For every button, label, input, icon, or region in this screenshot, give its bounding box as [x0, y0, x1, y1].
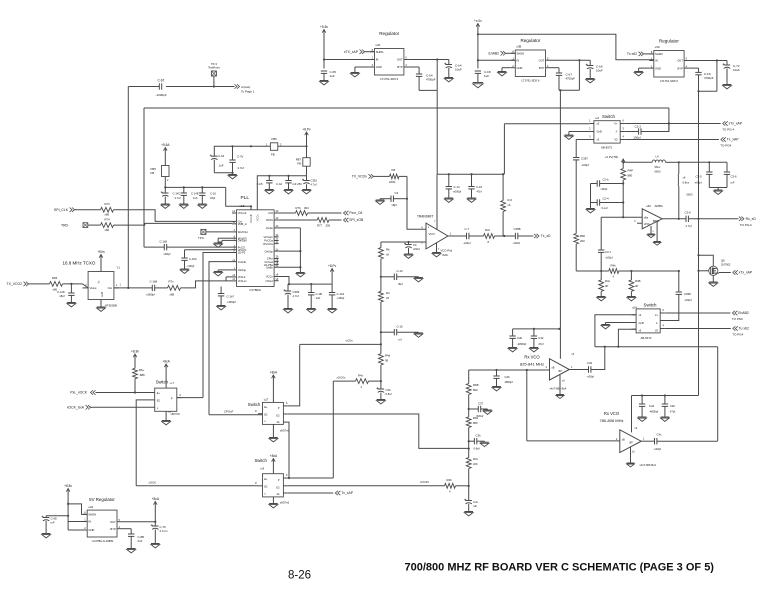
- wire +V top rail to reg3: [478, 34, 654, 60]
- svg-text:-x00pf: -x00pf: [513, 241, 521, 245]
- svg-text:C2-b: C2-b: [603, 178, 610, 182]
- connector TX_VCO2 input: [7, 282, 31, 286]
- svg-text:Rb: Rb: [386, 248, 390, 252]
- svg-text:x6: x6: [683, 176, 686, 180]
- power +8.Pv at FB6 node: [302, 128, 311, 158]
- svg-text:0-xuf: 0-xuf: [602, 206, 608, 210]
- capacitor C-b2 1uF pll rail: [276, 176, 302, 194]
- transistor Q6 2N7002: [709, 259, 731, 276]
- svg-text:R4B: R4B: [635, 279, 641, 283]
- capacitor C4e 47pF vco2: [661, 396, 676, 422]
- capacitor C-b4 loop near FB6: [210, 146, 234, 173]
- svg-text:R73: R73: [105, 202, 111, 206]
- svg-text:R7x: R7x: [169, 280, 175, 284]
- connector TX_xD output: [534, 234, 551, 238]
- svg-text:1uF: 1uF: [330, 74, 335, 78]
- svg-text:C-1b7: C-1b7: [227, 294, 235, 298]
- capacitor C3-6 1uF amp rail: [724, 162, 737, 187]
- svg-text:L4: L4: [656, 155, 660, 159]
- capacitor C-b4 10uF tantalum reg1 out: [444, 60, 462, 82]
- testpoint TP-b at PLL WuXOut: [198, 229, 232, 240]
- wire PLL LD-P2 down: [203, 253, 232, 398]
- svg-text:nPvCOa: nPvCOa: [263, 242, 274, 246]
- wire ladder x380 top: [380, 242, 382, 248]
- wire VCO1 supply caps rail: [513, 328, 561, 330]
- svg-text:R6B: R6B: [473, 383, 479, 387]
- svg-text:C-8B: C-8B: [138, 535, 145, 539]
- connector xTX_xAP to PG-4: [722, 121, 743, 131]
- svg-text:+8xA: +8xA: [270, 371, 278, 375]
- svg-text:GnB: GnB: [597, 130, 602, 134]
- svg-text:BYP: BYP: [678, 66, 684, 70]
- svg-text:38: 38: [385, 359, 388, 363]
- svg-text:R62: R62: [473, 416, 479, 420]
- svg-text:C-b2: C-b2: [276, 182, 282, 186]
- wire 5Vreg input node: [67, 496, 87, 531]
- svg-text:C4b: C4b: [670, 404, 676, 408]
- svg-text:Tx_xD: Tx_xD: [541, 234, 551, 238]
- svg-text:+5.6A: +5.6A: [161, 143, 170, 147]
- svg-text:ruF: ruF: [731, 181, 735, 185]
- capacitor C-1b8 1000pF series: [146, 280, 158, 297]
- svg-text:FB: FB: [151, 171, 155, 175]
- svg-text:xTAL2: xTAL2: [265, 279, 273, 283]
- svg-text:xOC43: xOC43: [420, 480, 429, 484]
- connector Tx_x62 input reg3: [627, 52, 654, 56]
- svg-text:220: 220: [473, 462, 478, 466]
- svg-text:1A: 1A: [276, 492, 279, 496]
- svg-text:IN: IN: [88, 520, 91, 524]
- wire amp output: [662, 218, 686, 220]
- resistor R4B 47 to gnd: [627, 271, 640, 301]
- ground regulator1 GND pin: [351, 67, 370, 77]
- wire regulator1 output: [408, 58, 448, 60]
- power +8.8v pll lock pullup: [131, 350, 139, 362]
- connector NTX_SHDN input: [344, 50, 375, 54]
- svg-text:xOCK_SxA: xOCK_SxA: [67, 406, 85, 410]
- svg-text:vCOx: vCOx: [346, 339, 354, 343]
- svg-text:u30: u30: [376, 43, 381, 47]
- op-amp Rx VCO1 825-841 MHz: [520, 352, 575, 391]
- connector PLL_xOCK input: [70, 390, 95, 394]
- svg-text:Regulator: Regulator: [659, 39, 679, 44]
- svg-text:C2-4: C2-4: [603, 197, 610, 201]
- svg-text:BYP: BYP: [110, 527, 116, 531]
- wire VCO1 out: [569, 369, 588, 371]
- power +8xA swL: [162, 360, 170, 389]
- svg-text:-88K: -88K: [139, 373, 145, 377]
- svg-text:+8xA: +8xA: [162, 360, 170, 364]
- svg-text:ruf: ruf: [399, 337, 402, 341]
- wire PLL xtal2 pin stub: [226, 277, 232, 281]
- svg-text:TX_VCOx: TX_VCOx: [352, 175, 368, 179]
- ground PLL OeSup pin: [214, 270, 232, 276]
- svg-text:OUT: OUT: [397, 58, 403, 62]
- svg-text:u1B: u1B: [240, 204, 245, 208]
- svg-text:Cb: Cb: [413, 243, 417, 247]
- svg-text:GND: GND: [655, 66, 661, 70]
- capacitor C-b6 10uF tantalum reg2 out: [586, 60, 603, 83]
- wire PLL_xOCK row: [96, 392, 155, 394]
- svg-text:-4800pf: -4800pf: [649, 410, 658, 414]
- svg-text:C-13: C-13: [397, 269, 404, 273]
- switch U17 ADG749 center: [248, 397, 290, 432]
- svg-text:IN: IN: [517, 58, 520, 62]
- svg-text:CPOuF: CPOuF: [224, 410, 234, 414]
- wire PLL VCCx to +8.Pv rail: [279, 277, 289, 285]
- svg-text:E2: E2: [264, 412, 268, 416]
- label 16.8 MHz TCXO: [63, 261, 96, 266]
- svg-text:-1000pF: -1000pF: [156, 93, 167, 97]
- svg-text:C3-6: C3-6: [731, 175, 738, 179]
- svg-text:16.8 MHz TCXO: 16.8 MHz TCXO: [63, 261, 96, 266]
- svg-text:SHDN: SHDN: [88, 513, 96, 517]
- svg-text:Switch: Switch: [602, 114, 615, 119]
- wire VCO2 supply rail: [632, 394, 699, 432]
- svg-text:To Page 1: To Page 1: [241, 90, 255, 94]
- svg-text:PxL_xOCK: PxL_xOCK: [70, 391, 88, 395]
- capacitor C37 820pF branch: [469, 402, 492, 419]
- wire SPI_CLK to PLL: [114, 210, 233, 222]
- svg-text:FB: FB: [297, 161, 301, 165]
- svg-text:+8.Pv: +8.Pv: [328, 264, 337, 268]
- regulator U30 LT1761: [370, 31, 408, 81]
- svg-text:GND: GND: [88, 528, 94, 532]
- capacitor C2-b 100pF feedback: [591, 178, 625, 192]
- svg-text:ruF 25C: ruF 25C: [293, 182, 303, 186]
- svg-text:10uF: 10uF: [455, 68, 462, 72]
- svg-text:O2: O2: [276, 413, 280, 417]
- svg-text:825-841 MHz: 825-841 MHz: [520, 361, 544, 366]
- svg-text:1uF: 1uF: [484, 74, 489, 78]
- ground swL: [162, 411, 171, 425]
- svg-text:-x00pf: -x00pf: [587, 374, 595, 378]
- svg-text:C-1b5: C-1b5: [160, 239, 168, 243]
- svg-text:x8pf: x8pf: [392, 203, 398, 207]
- svg-text:d (test): d (test): [241, 85, 250, 89]
- svg-text:-x00pf: -x00pf: [684, 298, 692, 302]
- svg-text:SPI_CLK: SPI_CLK: [54, 208, 69, 212]
- svg-text:BPOx: BPOx: [653, 220, 660, 223]
- svg-text:P: P: [278, 478, 280, 482]
- wire TCXO out node: [114, 284, 152, 290]
- svg-text:R6: R6: [392, 168, 396, 172]
- svg-text:x8pf: x8pf: [210, 196, 215, 200]
- svg-text:8x8x: 8x8x: [443, 253, 449, 257]
- power +3.0v(TR) amp rail: [605, 155, 626, 162]
- svg-text:-x00pf: -x00pf: [337, 296, 345, 300]
- capacitor C4x 100pF vco2 out: [654, 433, 718, 451]
- resistor R62 860: [466, 416, 478, 449]
- wire PLL supply rail y175: [259, 175, 307, 177]
- svg-text:V+: V+: [655, 313, 659, 317]
- svg-text:OeSup: OeSup: [238, 268, 247, 272]
- svg-text:200: 200: [580, 239, 585, 243]
- svg-text:R3x: R3x: [473, 457, 479, 461]
- ferrite bead FB5: [151, 155, 170, 189]
- wire sw1 pin3 down x575: [576, 140, 589, 156]
- svg-text:x8O7x6: x8O7x6: [280, 500, 290, 504]
- connector Pxxr_C6 output: [344, 211, 363, 215]
- svg-text:1uF: 1uF: [316, 296, 321, 300]
- svg-text:1uF: 1uF: [193, 196, 198, 200]
- svg-text:P: P: [171, 397, 173, 401]
- ground sw2 gnd pin: [601, 323, 631, 329]
- svg-text:CxOuF: CxOuF: [238, 260, 247, 264]
- svg-text:1A: 1A: [276, 420, 279, 424]
- svg-text:FB: FB: [271, 153, 275, 157]
- svg-text:C-14C: C-14C: [173, 192, 181, 196]
- svg-text:Tu x62: Tu x62: [739, 327, 749, 331]
- svg-text:CX7B00x: CX7B00x: [249, 288, 261, 292]
- svg-text:OUT: OUT: [110, 520, 116, 524]
- wire reg3 output: [689, 59, 727, 61]
- capacitor C2-4 0.1uF feedback: [591, 197, 625, 211]
- wire sw1 row3 to connector: [625, 139, 719, 141]
- capacitor C42 47pF vco1: [530, 329, 544, 352]
- ground PLL MUxES OeSum pins: [214, 238, 232, 247]
- svg-text:Rx2: Rx2: [485, 228, 490, 232]
- capacitor C-b5 100pF pll rail: [257, 176, 274, 194]
- svg-text:J-: J-: [615, 130, 617, 134]
- svg-text:R4x: R4x: [358, 374, 364, 378]
- power +5.8v regulator1 input: [320, 25, 328, 37]
- capacitor C-68 1uF 5Vreg: [42, 516, 69, 538]
- svg-text:1uF: 1uF: [219, 164, 224, 168]
- capacitor C-1B 1uF: [307, 284, 322, 313]
- svg-text:C-67: C-67: [158, 79, 165, 83]
- ground reg3 GND pin: [634, 68, 649, 76]
- resistor R4x 47 to gnd: [597, 271, 611, 301]
- capacitor C-1x8 18pF at TCXO in: [57, 284, 76, 307]
- svg-text:VCO: VCO: [429, 232, 436, 236]
- resistor Rx6 x6 pullup: [501, 173, 513, 236]
- capacitor C-79 4.7uF tantalum 5V: [151, 522, 168, 548]
- svg-text:WuXOut: WuXOut: [238, 230, 248, 234]
- svg-text:u-8: u-8: [260, 467, 264, 471]
- wire into PLL xtal pin: [181, 281, 233, 288]
- svg-text:OeBn: OeBn: [266, 265, 273, 269]
- wire TRD to PLL: [114, 223, 233, 225]
- svg-text:TRANSMIT: TRANSMIT: [417, 214, 433, 218]
- svg-text:VCCxB: VCCxB: [249, 214, 253, 223]
- capacitor C3-7 100pF input: [598, 217, 613, 271]
- ground amp rail caps: [709, 188, 727, 195]
- svg-text:rxC78Bx-N-4988b: rxC78Bx-N-4988b: [92, 539, 114, 543]
- svg-text:C3b: C3b: [476, 434, 482, 438]
- svg-text:C-7: C-7: [465, 227, 470, 231]
- capacitor C-x3 18uF branch: [381, 269, 423, 286]
- svg-text:R4b: R4b: [611, 264, 617, 268]
- svg-text:47pf: 47pf: [538, 342, 543, 346]
- svg-text:860: 860: [473, 421, 478, 425]
- svg-text:V2: V2: [655, 329, 659, 333]
- svg-text:LD-P2: LD-P2: [238, 251, 246, 255]
- op-amp PLL chip U1B CX7B00x: [232, 195, 279, 292]
- svg-text:VDB_in: VDB_in: [238, 222, 248, 226]
- svg-text:VCCxd: VCCxd: [238, 211, 247, 215]
- svg-text:xBa: xBa: [644, 217, 649, 220]
- svg-text:C-1b6: C-1b6: [189, 257, 197, 261]
- svg-text:x88: x88: [170, 292, 175, 296]
- capacitor C369 4.7uF tantalum: [284, 284, 300, 313]
- svg-text:860: 860: [473, 388, 478, 392]
- svg-text:u24: u24: [632, 305, 637, 309]
- wire vertical reg1-out to VCO rail: [436, 90, 438, 174]
- wire caps rail y187: [165, 186, 225, 188]
- power +x.0v rail: [474, 19, 482, 35]
- svg-text:VCO Pxd: VCO Pxd: [441, 248, 453, 252]
- capacitor C-x6 47pF VCO rail: [467, 173, 482, 202]
- svg-text:TestPoint: TestPoint: [208, 66, 220, 70]
- wire VCO top rail: [437, 173, 503, 175]
- capacitor C-x6 1uF branch: [381, 325, 423, 342]
- svg-text:C40: C40: [587, 361, 593, 365]
- svg-text:C-16: C-16: [210, 192, 216, 196]
- svg-text:+5Vs: +5Vs: [97, 250, 105, 254]
- svg-text:R74: R74: [105, 218, 111, 222]
- svg-text:700/800 MHZ RF BOARD VER C SCH: 700/800 MHZ RF BOARD VER C SCHEMATIC (PA…: [405, 562, 715, 574]
- wire vertical x128 TCXO column: [127, 87, 129, 288]
- wire Q6 out: [717, 272, 731, 275]
- svg-text:u3C: u3C: [655, 45, 660, 49]
- wire amp supply rail y162: [622, 161, 727, 163]
- svg-text:EnAB2: EnAB2: [738, 311, 749, 315]
- svg-text:BP: BP: [630, 442, 634, 445]
- connector Rx_xD output to PG-b: [739, 217, 756, 227]
- svg-text:4.7uf: 4.7uf: [175, 196, 181, 200]
- svg-text:R4x: R4x: [605, 279, 611, 283]
- wire Q6 drain jog: [697, 254, 713, 266]
- capacitor C3-8 4.7pF series out: [685, 211, 739, 229]
- svg-text:C-7b: C-7b: [237, 155, 244, 159]
- svg-text:Switch: Switch: [255, 458, 268, 463]
- svg-text:4.7uf x: 4.7uf x: [160, 529, 169, 533]
- svg-text:C2-2: C2-2: [635, 125, 642, 129]
- resistor R4d 38 ladder: [379, 344, 391, 381]
- svg-text:x4xT-806 Bx4: x4xT-806 Bx4: [640, 463, 657, 467]
- switch U-7 ADG749 pll lock: [155, 380, 182, 417]
- svg-text:GnB: GnB: [639, 321, 644, 325]
- regulator U3B LT1761: [511, 38, 550, 83]
- svg-text:0603: 0603: [687, 193, 693, 197]
- power +8xA 5Vreg out: [152, 497, 160, 522]
- power +8xA swA: [270, 371, 278, 403]
- svg-text:r8uf: r8uf: [398, 282, 403, 286]
- svg-text:4700pF: 4700pF: [704, 76, 714, 80]
- wire swB pin6 up: [288, 477, 333, 479]
- svg-text:u3B: u3B: [516, 44, 521, 48]
- svg-text:xTALxn: xTALxn: [238, 279, 247, 283]
- svg-text:R4b: R4b: [447, 478, 453, 482]
- wire ladder top corner: [468, 370, 470, 384]
- capacitor C-b9 4700pF BYP loop reg3: [689, 61, 717, 93]
- capacitor C3-5 100pF amp rail: [694, 162, 712, 187]
- svg-text:J-: J-: [656, 321, 658, 325]
- svg-text:47pf: 47pf: [477, 190, 482, 194]
- connector TRD input: [61, 223, 88, 228]
- svg-text:AB-8373: AB-8373: [601, 145, 612, 149]
- svg-text:+5.8v: +5.8v: [320, 25, 328, 29]
- svg-text:C3-7: C3-7: [605, 250, 612, 254]
- ground reg2 GND pin: [498, 68, 511, 76]
- resistor R4P 880 amp bias: [621, 162, 633, 217]
- capacitor C4d 4800pF vco2: [638, 396, 659, 422]
- capacitor C3b 6.8uF tantalum: [376, 381, 391, 404]
- svg-text:200: 200: [326, 224, 331, 228]
- ground under VCO1: [556, 375, 565, 399]
- svg-text:56nx: 56nx: [655, 165, 661, 169]
- svg-text:ruF: ruF: [51, 521, 55, 525]
- svg-text:Tx_xAP: Tx_xAP: [727, 138, 740, 142]
- svg-text:C-1b8: C-1b8: [150, 280, 158, 284]
- wire x333 vertical: [332, 381, 334, 478]
- svg-text:4.7uf: 4.7uf: [293, 294, 299, 298]
- resistor R6 220K: [376, 168, 408, 184]
- svg-text:VCCx: VCCx: [266, 275, 274, 279]
- svg-text:C-b4: C-b4: [218, 154, 225, 158]
- power +8.Pv at PLL vcc caps: [328, 264, 337, 276]
- svg-text:5V Regulator: 5V Regulator: [89, 497, 115, 502]
- wire rail to FB6: [233, 145, 271, 147]
- svg-text:+3 Pv(TR): +3 Pv(TR): [605, 155, 619, 159]
- svg-text:E+: E+: [157, 391, 161, 395]
- inductor L5 6.8nH: [678, 162, 693, 218]
- connector RX test to page 1: [235, 84, 255, 93]
- resistor R6x 100K pullup: [133, 361, 145, 394]
- svg-text:V2: V2: [614, 138, 618, 142]
- wire +8.Pv cap rail: [288, 276, 332, 286]
- wire sw2 row3 out jog: [665, 328, 731, 330]
- op-amp U40 AFB04 lna: [634, 204, 663, 229]
- wire VCO1 input row: [469, 369, 550, 371]
- svg-text:C-16: C-16: [476, 185, 483, 189]
- svg-text:C362: C362: [311, 179, 318, 183]
- svg-text:Switch: Switch: [644, 302, 657, 307]
- wire VCO pin3 row: [381, 241, 426, 243]
- capacitor C-14E 1uF: [191, 187, 207, 208]
- svg-text:Regulator: Regulator: [379, 31, 399, 36]
- svg-text:R65: R65: [52, 276, 58, 280]
- capacitor C-1b5 100pF series PvCO: [144, 239, 232, 256]
- svg-text:-x00pf: -x00pf: [187, 264, 195, 268]
- wire swL pin2 to xOCK net: [136, 400, 155, 486]
- svg-text:SHDN: SHDN: [655, 52, 663, 56]
- capacitor C-8B bypass 5V: [122, 529, 145, 553]
- svg-text:OeSu: OeSu: [266, 226, 273, 230]
- svg-text:4P: 4P: [605, 284, 608, 288]
- svg-text:6.8uf: 6.8uf: [386, 392, 392, 396]
- svg-text:4.7uf: 4.7uf: [311, 183, 317, 187]
- svg-text:4 7pf: 4 7pf: [686, 224, 692, 228]
- svg-text:C-14: C-14: [454, 185, 461, 189]
- svg-text:x8pf: x8pf: [59, 294, 64, 298]
- svg-text:Y1: Y1: [117, 266, 121, 270]
- capacitor C-14A tantalum: [161, 187, 170, 208]
- wire swL out to PLL LD: [177, 397, 203, 399]
- capacitor C-1b4 100pF: [328, 284, 345, 313]
- svg-text:x00uf: x00uf: [413, 247, 420, 251]
- connector SPI_xOB output: [344, 218, 364, 222]
- connector TX_xAP to PG-x: [720, 137, 739, 147]
- svg-text:2N7002: 2N7002: [721, 263, 731, 267]
- svg-text:10uF: 10uF: [733, 68, 740, 72]
- svg-text:-x00pf: -x00pf: [605, 256, 613, 260]
- wire xOCK rail into swB: [136, 480, 258, 486]
- svg-text:xTx_xAP: xTx_xAP: [739, 271, 753, 275]
- svg-text:C4b: C4b: [505, 375, 511, 379]
- capacitor C36B 100pF series out2: [513, 227, 534, 245]
